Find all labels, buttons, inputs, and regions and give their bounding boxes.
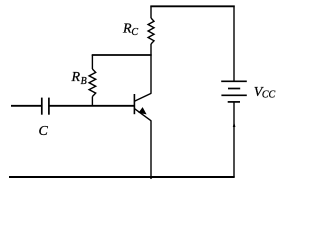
transistor Q1 — [134, 93, 151, 121]
svg-text:CC: CC — [262, 90, 276, 101]
battery V_CC — [221, 81, 247, 102]
svg-text:R: R — [71, 70, 81, 85]
wire right vertical upper (top rail to battery +) — [233, 6, 235, 82]
svg-text:C: C — [39, 124, 49, 139]
wire bottom rail — [9, 176, 235, 178]
wire right vertical lower (battery - to bottom rail) — [233, 102, 235, 177]
wire emitter vertical down to bottom rail — [150, 121, 152, 179]
wire input lead (left terminal to capacitor) — [11, 105, 42, 107]
wire RC bottom lead down to node — [150, 44, 152, 55]
wire node to collector — [150, 55, 152, 94]
current direction arrow on right wire — [233, 122, 236, 127]
wire R_B top to node on collector lead — [92, 54, 152, 56]
label V_CC — [254, 85, 276, 101]
label R_B — [71, 70, 87, 87]
svg-text:B: B — [81, 76, 87, 87]
label R_C — [122, 21, 138, 37]
resistor R_C — [148, 6, 154, 44]
wire base (capacitor to transistor base) — [49, 105, 134, 107]
resistor R_B — [89, 55, 96, 106]
capacitor C — [42, 98, 49, 115]
wire top rail from RC top to VCC+ — [150, 5, 234, 7]
svg-text:C: C — [131, 27, 138, 38]
